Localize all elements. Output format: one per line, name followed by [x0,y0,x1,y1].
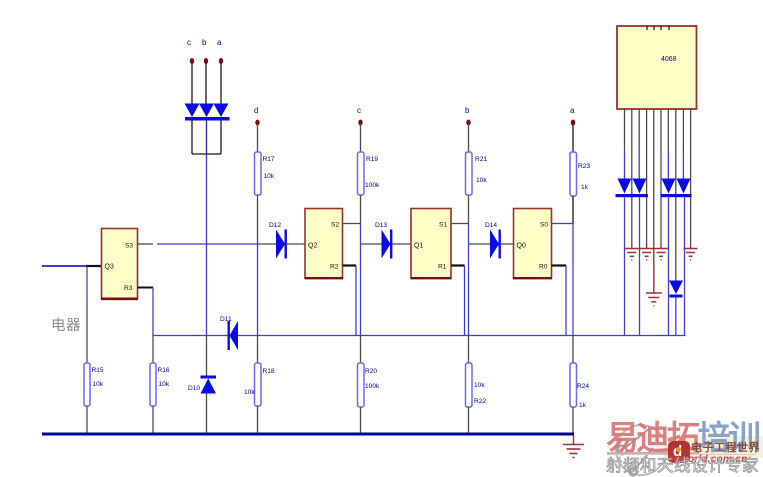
wire D12 to Q2 [287,243,305,245]
resistor R23 [570,152,577,196]
ground pin5 low [646,292,662,294]
wire c-net down to D11 row [360,224,362,336]
wire R24 to bus [572,407,574,434]
wire pin10 [690,109,692,244]
watermark eeworld panel [664,436,763,458]
wire bar2 right down [684,197,686,335]
wire to D12 anode [262,243,276,245]
wire a to R23 [572,124,574,152]
svg-text:10k: 10k [474,382,485,389]
svg-text:R1: R1 [438,264,447,271]
svg-text:1k: 1k [581,184,589,191]
wire a-net down to R24 [572,336,574,364]
wire a down [220,63,222,104]
diode triple middle triangle [199,104,214,118]
wire S1 stub [451,223,469,225]
diode triple left triangle [185,104,200,118]
watermark title base bar [607,452,699,455]
svg-text:R16: R16 [158,367,170,374]
wire b down [205,63,207,104]
svg-text:Q3: Q3 [105,264,114,271]
wire d-net down to R18 [257,336,259,364]
svg-text:R20: R20 [365,368,377,375]
terminal dot c2 [358,120,362,126]
IC U1 4068 [617,26,697,109]
diode array bar2 [661,194,692,197]
wire R3 stub black [138,287,154,289]
wire pin6 [660,109,662,244]
ground bus bottom [42,433,574,436]
svg-text:10k: 10k [244,389,255,396]
svg-text:R22: R22 [474,398,486,405]
wire pin1 [624,109,626,151]
ground at bus end [573,435,575,445]
wire d to R17 [257,124,259,152]
wire input tap down [86,266,88,302]
wire R18 to bus [257,406,259,434]
svg-text:S1: S1 [439,222,447,229]
watermark logo circle [608,420,678,477]
flip-flop Q1 [411,209,451,279]
wire R1 drop [464,266,466,336]
wire R2 drop [355,266,357,336]
watermark subtitle 射频和天线设计专家 [606,458,759,475]
wire d-net down to D11 row [257,244,259,336]
terminal dot a2 [571,120,575,126]
diode D pin8 [669,281,683,295]
wire input horizontal blue [42,265,87,267]
diode triple cathode bar [185,117,230,121]
terminal dot a [219,58,223,64]
resistor R20 [358,363,365,407]
watermark eeworld logo [668,441,690,463]
svg-text:S2: S2 [331,222,339,229]
wire S3 stub [138,243,154,245]
svg-text:D12: D12 [269,222,281,229]
wire pin7 [667,109,669,151]
svg-text:c: c [357,106,361,115]
wire D10 to bus [206,394,208,435]
ground pin2 [631,244,633,249]
svg-text:Q1: Q1 [414,243,423,250]
watermark 电子工程世界 [691,443,760,454]
wire R15 to bus [86,406,88,434]
resistor R15 [84,363,90,406]
svg-text:a: a [570,106,575,115]
svg-text:100k: 100k [365,383,380,390]
svg-text:d: d [254,106,258,115]
diode array D pair2 left [662,179,676,194]
wire R1 stub black [451,264,465,266]
resistor R16 [150,363,156,406]
wire bar2 left down [668,197,670,335]
svg-text:b: b [202,38,207,47]
svg-text:100k: 100k [365,182,380,189]
wire R2 stub black [343,264,357,266]
wire R17 down to node at S-row [257,195,259,244]
wire R0 stub black [552,264,567,266]
wire tap to R15 [86,302,88,363]
svg-text:a: a [217,38,222,47]
wire below bar left [191,121,193,155]
svg-text:S0: S0 [540,222,548,229]
resistor R22 [466,363,473,407]
svg-text:1k: 1k [579,402,587,409]
wire a-net down to D11 row [572,224,574,336]
svg-text:R0: R0 [539,264,548,271]
resistor R17 [255,152,262,195]
ground pin10 [690,244,692,249]
wire b-net down to D11 row [468,224,470,336]
resistor R18 [255,363,262,406]
wire R3 drop [152,288,154,336]
wire S0 stub [552,223,574,225]
wire bar1 right down [639,197,641,335]
svg-text:4068: 4068 [661,56,677,63]
wire R23 down to S0 junction [572,196,574,224]
wire pin2 [631,109,633,244]
svg-text:R3: R3 [124,285,133,292]
wire R16 to bus [152,406,154,434]
diode array D pair1 left [618,179,632,194]
wire c down [191,63,193,104]
wire bracket join [192,153,221,155]
svg-text:Q0: Q0 [517,243,526,250]
wire c-net down to R20 [360,336,362,364]
wire pin8 [675,109,677,281]
svg-text:R15: R15 [92,367,104,374]
wire c to R19 [360,124,362,152]
svg-text:D14: D14 [485,222,497,229]
flip-flop Q3 [102,229,138,299]
diode array D pair2 right [677,179,691,194]
terminal dot b [204,58,208,64]
svg-text:R19: R19 [366,156,378,163]
wire center drop to D10 net [206,154,208,336]
terminal dot c [190,58,194,64]
wire R20 to bus [360,407,362,434]
wire b-net down to R22 [468,336,470,364]
ground pin4 [646,244,648,249]
wire b to R21 [468,124,470,152]
svg-text:R2: R2 [330,264,339,271]
svg-text:b: b [465,106,470,115]
wire pin3 [638,109,640,151]
flip-flop Q2 [305,209,343,279]
wire D13 to Q1 [393,243,412,245]
watermark title 易迪拓培训 [606,421,759,454]
svg-text:10k: 10k [93,381,104,388]
wire R0 drop [565,266,567,336]
wire pin5 [653,109,655,248]
svg-text:S3: S3 [125,243,133,250]
svg-text:R18: R18 [263,368,275,375]
wire input to Q3 black [86,265,102,267]
wire pin9 [682,109,684,151]
watermark eeworld url [668,454,747,465]
wire R21 down to S1 junction [468,195,470,224]
svg-text:R24: R24 [577,383,589,390]
svg-text:10k: 10k [159,381,170,388]
wire S2 stub [343,223,361,225]
wire pin8 to row [675,298,677,336]
wire below bar right [220,121,222,155]
svg-text:R21: R21 [475,156,487,163]
svg-text:R17: R17 [263,156,275,163]
wire below bar middle [206,121,208,155]
wire D14 to Q0 [501,243,514,245]
svg-text:电器: 电器 [51,317,81,334]
diode array D pair1 right [633,179,647,194]
flip-flop Q0 [514,209,552,279]
wire pin4 [646,109,648,244]
svg-text:10k: 10k [476,177,487,184]
svg-text:D11: D11 [220,316,232,323]
svg-text:D10: D10 [188,385,200,392]
wire b-net to D14 [469,243,491,245]
resistor R24 [570,363,577,407]
terminal dot b2 [466,120,470,126]
pin ticks on 4068 top [646,26,648,30]
wire R19 down to S2 junction [360,195,362,224]
wire D11 row horizontal [153,335,686,337]
ground pin6 [660,244,662,249]
svg-text:D13: D13 [375,222,387,229]
svg-text:Q2: Q2 [308,243,317,250]
resistor R21 [466,152,473,195]
diode triple right triangle [214,104,229,118]
diode array bar1 [616,194,649,197]
wire bar1 left down [624,197,626,335]
resistor R19 [358,152,365,195]
wire pin5 red drop [653,248,655,293]
wire c-net to D13 [361,243,382,245]
svg-text:c: c [187,38,191,47]
svg-text:R23: R23 [578,163,590,170]
wire R3 net to R16 [152,336,154,364]
svg-text:10k: 10k [264,173,275,180]
wire R22 to bus [468,407,470,434]
terminal dot d [255,120,259,126]
wire S3 to D12 [157,243,262,245]
